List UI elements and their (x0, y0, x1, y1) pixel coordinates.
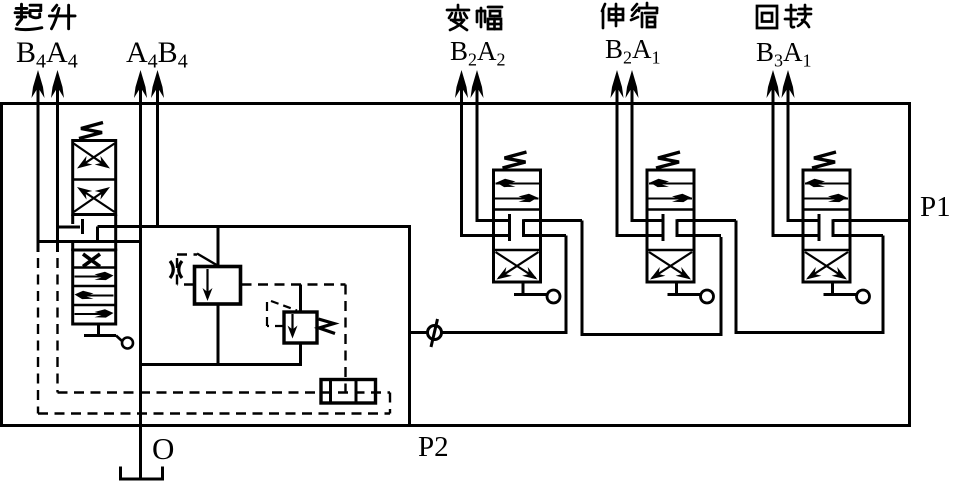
work line A of telescope V3 (631, 75, 634, 222)
carry-over return line (410, 331, 567, 334)
work line B4 (second pair) (156, 75, 159, 228)
valve slew V4 arrow left (805, 183, 849, 185)
P1 line (833, 219, 909, 222)
hoist valve drain port (97, 324, 100, 334)
hoist valve lower block (73, 250, 116, 324)
hoist valve arrow left (80, 295, 114, 297)
valve telescope V3 carry-over passage (676, 219, 679, 237)
work line B of telescope V3 (616, 75, 619, 237)
work line A4 (56, 75, 59, 252)
series link U2 (735, 331, 885, 334)
shuttle box (321, 380, 376, 404)
directional valve slew V4 body (803, 170, 850, 282)
R2 pilot diagonal (271, 301, 297, 311)
R2 pilot dashes (267, 325, 284, 327)
label 回转 (slew) (757, 5, 811, 28)
label 伸缩 (telescope) (602, 3, 657, 28)
work line B of luffing V2 (460, 75, 463, 237)
work line A of luffing V2 (476, 75, 479, 222)
telescope upper exit (677, 219, 736, 222)
P2 drop line (408, 227, 411, 426)
R2 outlet (299, 343, 302, 366)
R2 spring (319, 319, 336, 334)
main relief valve R1 (195, 267, 241, 305)
valve telescope V3 drain port (675, 282, 678, 293)
R1 pilot diagonal (197, 254, 218, 266)
hoist valve drain circle (122, 338, 133, 349)
hoist valve arrow right 1 (75, 276, 106, 278)
pilot rail link (389, 393, 391, 414)
label 起升 (hoist) (15, 4, 75, 29)
hoist valve arrow right 2 (75, 313, 106, 315)
work line A of slew V4 (787, 75, 790, 222)
hoist valve body sides (71, 215, 74, 225)
valve slew V4 blocked-port bar (818, 214, 821, 241)
R1 outlet (217, 304, 220, 366)
valve slew V4 spring (812, 152, 836, 168)
luffing lower exit (524, 234, 567, 237)
directional valve luffing V2 body (494, 170, 541, 282)
series link U1 (581, 333, 723, 336)
B4 connection rail (37, 240, 143, 243)
main relief valve R1 feed (217, 227, 220, 267)
valve luffing V2 spring (503, 152, 527, 168)
work line B4 (37, 75, 40, 252)
work line B of slew V4 (772, 75, 775, 237)
valve slew V4 crossed arrows cell (808, 252, 848, 278)
valve telescope V3 blocked-port bar (662, 214, 665, 241)
valve luffing V2 arrow left (496, 183, 540, 185)
valve slew V4 drain port (831, 282, 834, 293)
valve luffing V2 crossed arrows cell (499, 252, 539, 278)
hoist valve spring (79, 123, 103, 139)
valve block outline (2, 104, 910, 426)
valve slew V4 arrow right (804, 198, 848, 200)
valve telescope V3 arrow right (648, 198, 692, 200)
svg-text:P1: P1 (920, 191, 951, 223)
pilot drop line (344, 285, 346, 400)
slew lower exit (833, 234, 883, 237)
tank symbol (121, 467, 163, 480)
work line A4 (second pair, tank line) (139, 75, 142, 479)
hoist valve upper block (73, 141, 116, 215)
valve slew V4 drain circle (857, 290, 870, 303)
pilot rail upper (A side) (56, 258, 58, 393)
hoist valve A port entry (58, 226, 81, 229)
main gallery line (98, 225, 412, 228)
valve telescope V3 arrow left (649, 183, 693, 185)
plugged vent symbol (170, 261, 173, 278)
R1 remote pilot dashes (177, 283, 194, 285)
svg-text:P2: P2 (418, 431, 449, 463)
directional valve telescope V3 body (647, 170, 694, 282)
pilot rail lower (B side) (37, 258, 39, 414)
plugged carry-over symbol (428, 326, 442, 340)
hoist valve blocked-port bar (81, 219, 84, 234)
valve telescope V3 drain circle (701, 290, 714, 303)
valve luffing V2 drain circle (547, 290, 560, 303)
valve luffing V2 carry-over passage (522, 219, 525, 237)
pilot line dashes to R2 (242, 283, 346, 285)
hoist valve closed position X (83, 254, 100, 267)
hoist valve carry-over stub (96, 227, 99, 242)
luffing upper exit (524, 219, 583, 222)
valve telescope V3 spring (656, 152, 680, 168)
valve luffing V2 drain port (522, 282, 525, 293)
valve telescope V3 crossed arrows cell (652, 252, 692, 278)
valve luffing V2 blocked-port bar (508, 214, 511, 241)
svg-text:O: O (152, 431, 174, 466)
valve luffing V2 arrow right (495, 198, 539, 200)
label 变幅 (luffing) (447, 5, 502, 30)
hoist valve upper crossed arrows (80, 144, 115, 167)
valve slew V4 carry-over passage (832, 219, 835, 237)
telescope lower exit (677, 234, 721, 237)
secondary relief valve R2 feed (299, 285, 302, 313)
secondary relief valve R2 (284, 312, 317, 343)
relief return rail (139, 363, 302, 366)
